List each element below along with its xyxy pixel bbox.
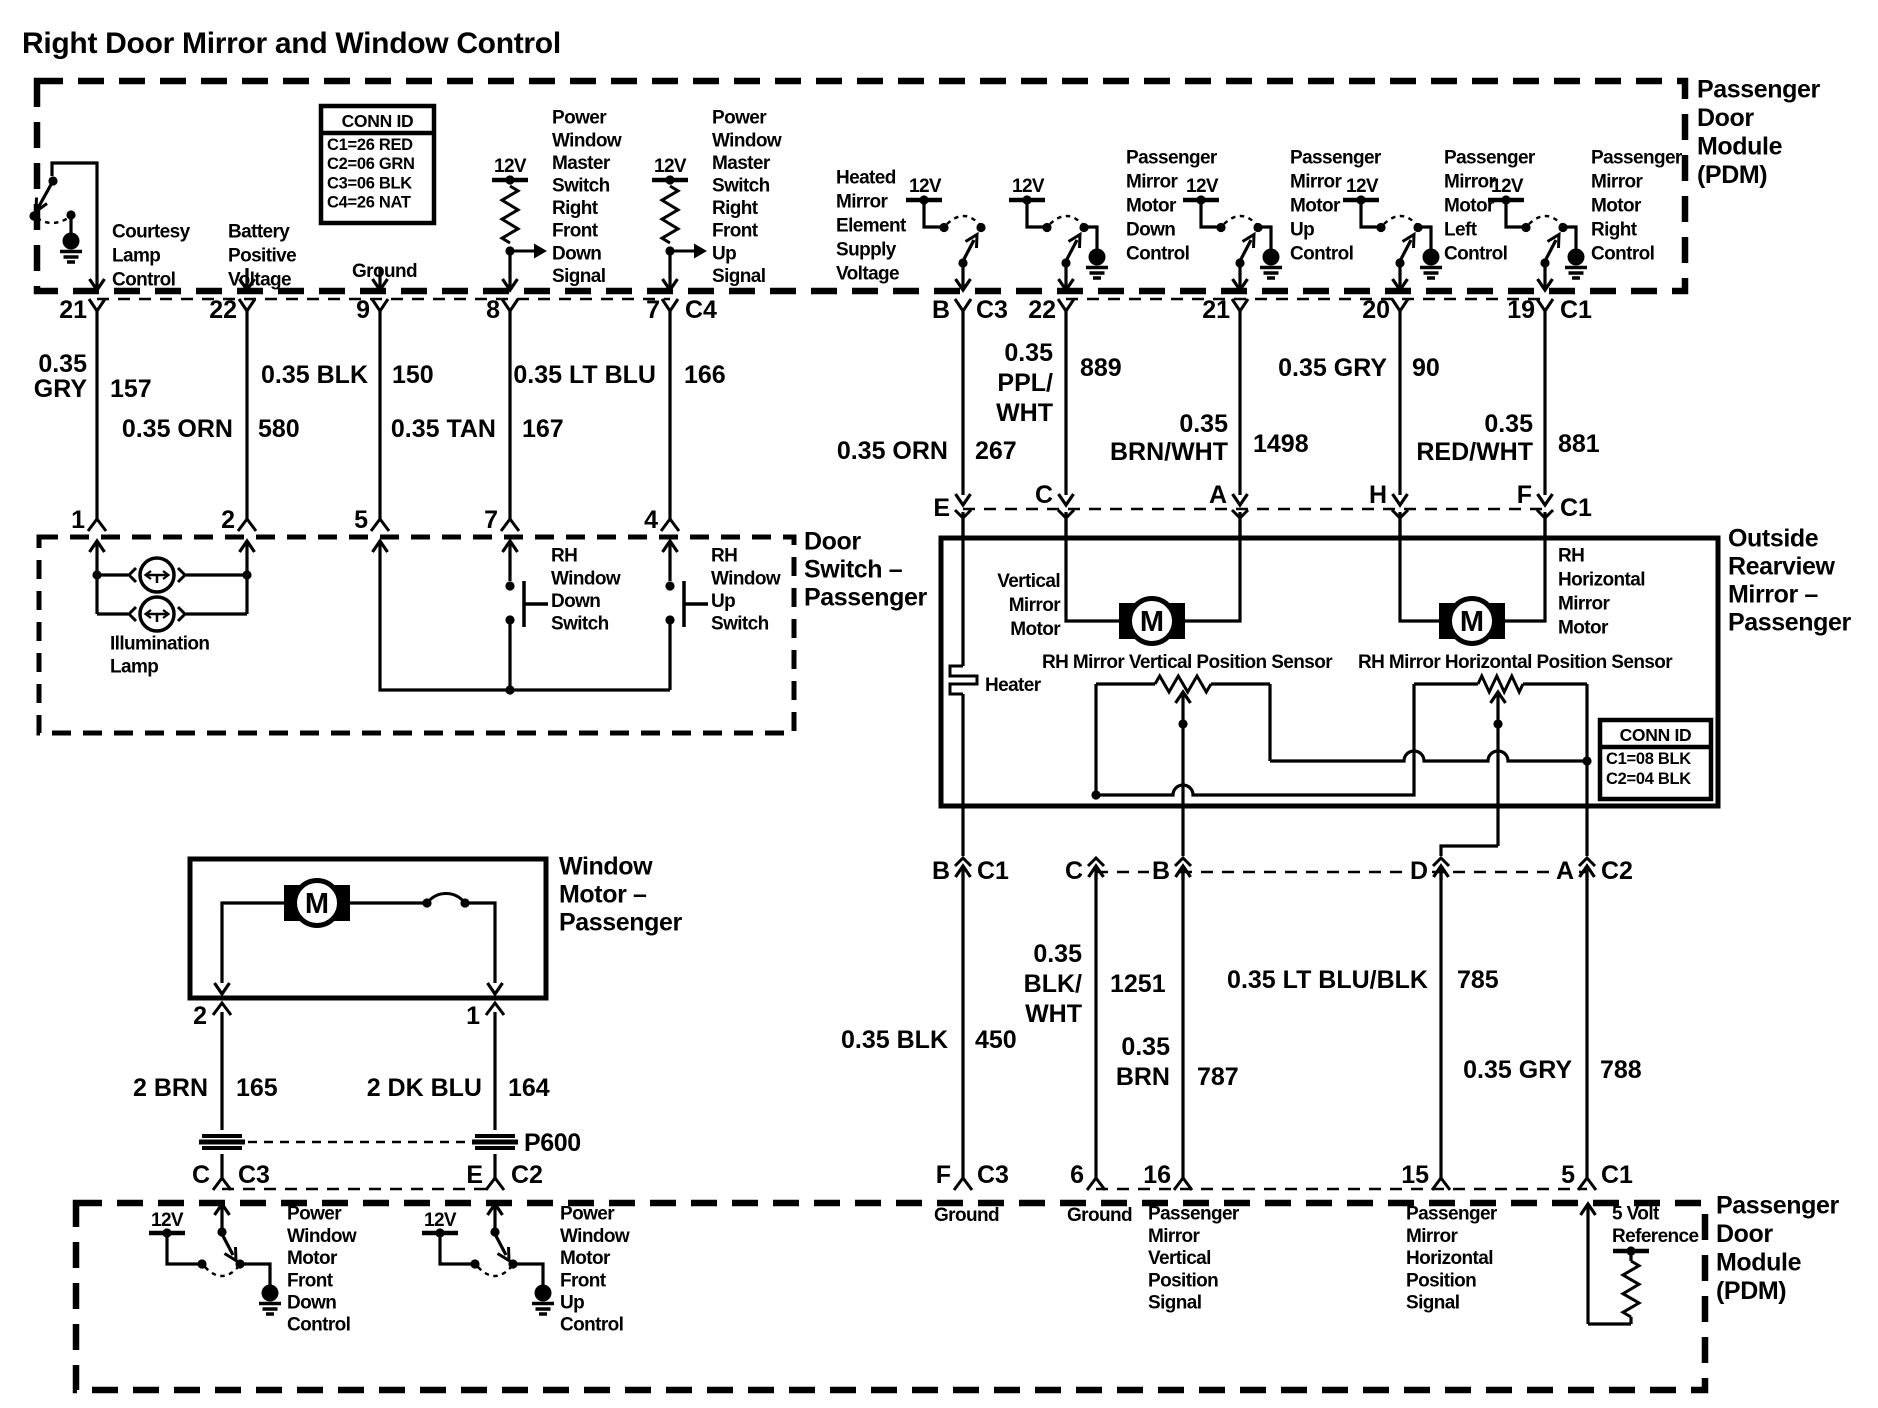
connector C1 dashed line (top) [1066, 298, 1545, 301]
svg-text:GRY: GRY [34, 375, 88, 403]
svg-text:7: 7 [646, 296, 660, 324]
svg-text:Control: Control [1444, 244, 1507, 265]
svg-text:Module: Module [1716, 1249, 1802, 1277]
svg-text:Mirror: Mirror [1591, 172, 1644, 193]
svg-text:787: 787 [1197, 1063, 1239, 1091]
svg-text:RH: RH [1558, 546, 1584, 567]
svg-text:Horizontal: Horizontal [1406, 1248, 1493, 1269]
svg-text:(PDM): (PDM) [1697, 161, 1767, 189]
svg-text:Reference: Reference [1612, 1226, 1699, 1247]
arrow into door switch box at x=670 [663, 541, 678, 552]
svg-text:Mirror: Mirror [1126, 172, 1179, 193]
svg-text:Vertical: Vertical [997, 571, 1060, 592]
svg-text:267: 267 [975, 437, 1017, 465]
svg-text:C1: C1 [1560, 494, 1592, 522]
svg-text:Switch –: Switch – [804, 556, 903, 584]
svg-text:Control: Control [112, 270, 175, 291]
wire 150 (pin9 to pin5) [378, 311, 381, 519]
svg-text:M: M [1140, 606, 1164, 638]
P600 dashed link [248, 1141, 469, 1143]
svg-text:12V: 12V [1012, 176, 1045, 197]
pin 16 fork (bottom PDM) [1174, 1178, 1192, 1190]
illumination lamp 2 [97, 612, 128, 615]
pin A arrow into mirror connector [1233, 494, 1248, 505]
svg-text:Window: Window [551, 568, 621, 589]
pin 21 connector fork (right) [1232, 299, 1248, 311]
svg-text:5: 5 [354, 506, 368, 534]
Window Motor - Passenger box [190, 859, 546, 998]
svg-text:Motor: Motor [1558, 618, 1609, 639]
RH mirror vertical position sensor (potentiometer) [1096, 682, 1155, 685]
svg-text:Lamp: Lamp [112, 246, 160, 267]
svg-text:Up: Up [712, 243, 736, 264]
svg-text:Signal: Signal [712, 266, 765, 287]
svg-text:0.35 LT BLU: 0.35 LT BLU [513, 361, 656, 389]
inline connector P600 right [475, 1134, 515, 1138]
svg-text:Passenger: Passenger [1406, 1204, 1498, 1225]
svg-text:H: H [1369, 481, 1387, 509]
svg-text:15: 15 [1401, 1161, 1429, 1189]
svg-text:Door: Door [804, 528, 861, 556]
svg-text:CONN ID: CONN ID [1620, 725, 1692, 745]
svg-text:RH: RH [551, 546, 577, 567]
svg-text:(PDM): (PDM) [1716, 1277, 1786, 1305]
wire 785 (D to 15) [1439, 874, 1442, 1178]
svg-text:Switch: Switch [712, 176, 770, 197]
svg-text:Window: Window [559, 853, 653, 881]
wire 787 (B to 16) [1181, 874, 1184, 1178]
svg-text:Mirror: Mirror [1558, 594, 1611, 615]
svg-text:788: 788 [1600, 1056, 1642, 1084]
svg-text:B: B [932, 857, 950, 885]
pin 9 connector fork [372, 299, 388, 311]
svg-text:450: 450 [975, 1026, 1017, 1054]
svg-text:WHT: WHT [1025, 1000, 1082, 1028]
RH window up switch [668, 562, 671, 581]
svg-text:5: 5 [1561, 1161, 1575, 1189]
svg-text:P600: P600 [524, 1129, 581, 1157]
svg-text:1: 1 [466, 1002, 480, 1030]
vertical sensor wiper [1176, 692, 1191, 703]
svg-text:Motor –: Motor – [559, 881, 647, 909]
svg-text:6: 6 [1070, 1161, 1084, 1189]
svg-text:C1: C1 [1601, 1161, 1633, 1189]
svg-text:B: B [932, 296, 950, 324]
pin 22 connector fork [239, 299, 255, 311]
node lamp top-left [92, 570, 101, 579]
svg-text:Control: Control [560, 1315, 623, 1336]
svg-text:580: 580 [258, 415, 300, 443]
pin 4 connector fork (door switch) [661, 519, 679, 531]
wire 1251 (C to 6) [1094, 874, 1097, 1178]
svg-text:Ground: Ground [1067, 1205, 1132, 1226]
wire 164 (pin1 to P600) [493, 1012, 496, 1130]
svg-text:22: 22 [1028, 296, 1056, 324]
svg-text:Power: Power [712, 108, 767, 129]
battery positive voltage pin stub [245, 268, 248, 289]
svg-text:Control: Control [287, 1315, 350, 1336]
wire motor to pin 2 [222, 903, 284, 983]
pin 8 connector fork [502, 299, 518, 311]
svg-text:Mirror: Mirror [1406, 1226, 1459, 1247]
svg-text:Motor: Motor [1290, 196, 1341, 217]
sensor output bus with hops [1270, 751, 1587, 761]
pin 7 connector fork (door switch) [501, 519, 519, 531]
RH window down switch [508, 562, 511, 581]
svg-text:B: B [1152, 857, 1170, 885]
svg-text:Power: Power [560, 1204, 615, 1225]
node window switch bus junction [505, 685, 514, 694]
svg-text:Right: Right [1591, 220, 1638, 241]
svg-text:0.35 LT BLU/BLK: 0.35 LT BLU/BLK [1227, 966, 1428, 994]
svg-text:Down: Down [287, 1293, 336, 1314]
wire P600 to pin E [493, 1154, 496, 1178]
pin 2 fork (window motor) [213, 1003, 231, 1015]
svg-text:Motor: Motor [1126, 196, 1177, 217]
mirror lower connector dashed line [1096, 871, 1587, 874]
svg-text:22: 22 [209, 296, 237, 324]
svg-text:Front: Front [552, 221, 599, 242]
svg-text:Switch: Switch [551, 614, 609, 635]
ground pin stub [378, 268, 381, 289]
svg-text:12V: 12V [654, 156, 687, 177]
svg-text:Door: Door [1697, 104, 1754, 132]
svg-text:Window: Window [552, 130, 622, 151]
svg-text:Voltage: Voltage [228, 270, 291, 291]
svg-text:167: 167 [522, 415, 564, 443]
svg-text:Door: Door [1716, 1220, 1773, 1248]
node lamp top-right [242, 570, 251, 579]
svg-text:0.35: 0.35 [1179, 410, 1228, 438]
svg-text:Right: Right [552, 198, 599, 219]
svg-text:2 DK BLU: 2 DK BLU [367, 1074, 482, 1102]
svg-text:5 Volt: 5 Volt [1612, 1204, 1660, 1225]
arrow into door switch box at x=380 [373, 541, 388, 552]
svg-text:Power: Power [287, 1204, 342, 1225]
svg-text:Left: Left [1444, 220, 1478, 241]
svg-text:Module: Module [1697, 133, 1783, 161]
pin 21 connector fork [89, 299, 105, 311]
svg-text:Courtesy: Courtesy [112, 222, 191, 243]
pin B connector fork [955, 299, 971, 311]
svg-text:C2: C2 [511, 1161, 543, 1189]
svg-text:Outside: Outside [1728, 525, 1819, 553]
svg-text:Window: Window [712, 130, 782, 151]
wire 165 (pin2 to P600) [220, 1012, 223, 1130]
horizontal sensor wiper [1491, 692, 1506, 703]
svg-text:Signal: Signal [1148, 1293, 1201, 1314]
svg-text:Signal: Signal [1406, 1293, 1459, 1314]
pin 7 connector fork [662, 299, 678, 311]
svg-text:1498: 1498 [1253, 430, 1309, 458]
svg-text:165: 165 [236, 1074, 278, 1102]
svg-text:BRN: BRN [1116, 1063, 1170, 1091]
svg-text:Right Door Mirror and Window C: Right Door Mirror and Window Control [22, 27, 561, 60]
pin 19 connector fork (right) [1537, 299, 1553, 311]
svg-text:2 BRN: 2 BRN [133, 1074, 208, 1102]
svg-text:BRN/WHT: BRN/WHT [1110, 438, 1228, 466]
wire 166 (pin7 to pin4) [668, 311, 671, 519]
wire 580 (pin22 to pin2) [245, 311, 248, 519]
pin A row3 x1587 symbol [1579, 858, 1595, 866]
svg-text:BLK/: BLK/ [1024, 970, 1082, 998]
svg-text:Motor: Motor [560, 1248, 611, 1269]
svg-text:Position: Position [1406, 1270, 1476, 1291]
svg-text:A: A [1556, 857, 1574, 885]
svg-text:C: C [1065, 857, 1083, 885]
svg-text:A: A [1209, 481, 1227, 509]
svg-text:Switch: Switch [711, 614, 769, 635]
svg-text:E: E [466, 1161, 483, 1189]
svg-text:Ground: Ground [934, 1205, 999, 1226]
pin 6 fork (bottom PDM) [1087, 1178, 1105, 1190]
svg-text:Passenger: Passenger [559, 909, 683, 937]
bottom PDM connector dashed line [1096, 1188, 1587, 1191]
svg-text:Motor: Motor [1010, 619, 1061, 640]
svg-text:Up: Up [711, 591, 735, 612]
circuit breaker (window motor) [350, 901, 427, 904]
CONN ID table (PDM connectors) [321, 106, 434, 223]
svg-text:12V: 12V [494, 156, 527, 177]
svg-text:12V: 12V [424, 1210, 457, 1231]
svg-text:Signal: Signal [552, 266, 605, 287]
wire 1498 (pin21 to pin A) [1238, 311, 1241, 495]
pin F fork (bottom PDM) [954, 1178, 972, 1190]
svg-text:0.35 ORN: 0.35 ORN [837, 437, 948, 465]
svg-text:RH: RH [711, 546, 737, 567]
wire breaker to pin 1 [465, 903, 495, 983]
node sensor common junction [1091, 790, 1100, 799]
svg-text:Mirror: Mirror [836, 192, 889, 213]
svg-text:0.35: 0.35 [1121, 1033, 1170, 1061]
svg-text:0.35 BLK: 0.35 BLK [841, 1026, 948, 1054]
svg-text:19: 19 [1507, 296, 1535, 324]
svg-text:C3=06 BLK: C3=06 BLK [327, 174, 412, 192]
svg-text:D: D [1410, 857, 1428, 885]
pin B row3 x963 symbol [955, 858, 971, 866]
wire 889 (pin22 to pin C) [1064, 311, 1067, 495]
pin 20 connector fork (right) [1392, 299, 1408, 311]
svg-text:157: 157 [110, 375, 152, 403]
svg-text:Window: Window [287, 1226, 357, 1247]
wire 167 (pin8 to pin7) [508, 311, 511, 519]
svg-text:F: F [1517, 481, 1532, 509]
heater element [961, 512, 964, 666]
pin 22 connector fork (right) [1058, 299, 1074, 311]
svg-text:Lamp: Lamp [110, 657, 158, 678]
svg-text:881: 881 [1558, 430, 1600, 458]
svg-text:RH Mirror Horizontal Position: RH Mirror Horizontal Position Sensor [1358, 652, 1673, 673]
sensor common bus with hop [1096, 684, 1414, 795]
svg-text:Master: Master [552, 153, 611, 174]
svg-text:C4: C4 [685, 296, 717, 324]
svg-text:CONN ID: CONN ID [342, 111, 414, 131]
connector C4 dashed line [97, 298, 670, 301]
wire 267 (pin B to pin E) [961, 311, 964, 495]
sensor1 right drop to bus [1268, 684, 1271, 761]
svg-text:Heater: Heater [985, 675, 1042, 696]
arrow into door switch box at x=97 [90, 541, 105, 552]
svg-text:RH Mirror Vertical Position Se: RH Mirror Vertical Position Sensor [1042, 652, 1333, 673]
svg-text:Battery: Battery [228, 222, 290, 243]
svg-text:C1=26 RED: C1=26 RED [327, 136, 413, 154]
RH mirror horizontal position sensor (potentiometer) [1414, 682, 1478, 685]
svg-text:Front: Front [287, 1270, 334, 1291]
svg-text:Passenger: Passenger [1148, 1204, 1240, 1225]
courtesy lamp switch [52, 163, 97, 289]
svg-text:Front: Front [712, 221, 759, 242]
svg-text:Up: Up [560, 1293, 584, 1314]
svg-text:Master: Master [712, 153, 771, 174]
svg-text:Passenger: Passenger [1728, 609, 1852, 637]
svg-text:Down: Down [552, 243, 601, 264]
svg-text:Position: Position [1148, 1270, 1218, 1291]
svg-text:Switch: Switch [552, 176, 610, 197]
pin 15 fork (bottom PDM) [1432, 1178, 1450, 1190]
wire 788 (A to 5) [1585, 874, 1588, 1178]
svg-text:Passenger: Passenger [1716, 1192, 1840, 1220]
vertical mirror motor M1 [1066, 512, 1119, 621]
svg-text:150: 150 [392, 361, 434, 389]
svg-text:Control: Control [1591, 244, 1654, 265]
pin F arrow into mirror connector [1538, 494, 1553, 505]
svg-text:0.35: 0.35 [1484, 410, 1533, 438]
svg-text:WHT: WHT [996, 399, 1053, 427]
mirror connector dashed line (row2) [963, 508, 1545, 511]
wire 90 (pin20 to pin H) [1398, 311, 1401, 495]
svg-text:Motor: Motor [1591, 196, 1642, 217]
Passenger Door Module (PDM) bottom dashed box [76, 1203, 1705, 1390]
svg-text:Mirror –: Mirror – [1728, 581, 1818, 609]
svg-text:Window: Window [711, 568, 781, 589]
svg-text:Supply: Supply [836, 240, 897, 261]
svg-text:0.35 GRY: 0.35 GRY [1278, 354, 1387, 382]
svg-text:0.35 GRY: 0.35 GRY [1463, 1056, 1572, 1084]
pin 5 fork (bottom PDM) [1578, 1178, 1596, 1190]
svg-text:12V: 12V [1491, 176, 1524, 197]
wire 881 (pin19 to pin F) [1543, 311, 1546, 495]
svg-text:E: E [933, 494, 950, 522]
svg-text:Power: Power [552, 108, 607, 129]
svg-text:1251: 1251 [1110, 970, 1166, 998]
svg-text:1: 1 [71, 506, 85, 534]
svg-text:Passenger: Passenger [1126, 148, 1218, 169]
svg-text:7: 7 [484, 506, 498, 534]
svg-text:20: 20 [1362, 296, 1390, 324]
svg-text:Down: Down [1126, 220, 1175, 241]
svg-text:Passenger: Passenger [1290, 148, 1382, 169]
svg-text:2: 2 [221, 506, 235, 534]
svg-text:12V: 12V [909, 176, 942, 197]
svg-text:0.35: 0.35 [1033, 940, 1082, 968]
svg-text:0.35: 0.35 [38, 350, 87, 378]
pin B row3 x1183 symbol [1175, 858, 1191, 866]
svg-text:12V: 12V [1346, 176, 1379, 197]
svg-text:Down: Down [551, 591, 600, 612]
svg-text:164: 164 [508, 1074, 550, 1102]
arrow into door switch box at x=510 [503, 541, 518, 552]
connector row C/E dashed line [222, 1188, 495, 1191]
CONN ID table (mirror) [1600, 720, 1711, 799]
pin D row3 x1441 label [1407, 857, 1429, 882]
svg-text:C3: C3 [238, 1161, 270, 1189]
svg-text:Up: Up [1290, 220, 1314, 241]
svg-text:889: 889 [1080, 354, 1122, 382]
pin 5 connector fork (door switch) [371, 519, 389, 531]
svg-text:Motor: Motor [287, 1248, 338, 1269]
svg-text:C4=26 NAT: C4=26 NAT [327, 194, 411, 212]
5 volt reference circuit [1581, 1204, 1596, 1215]
pin D row3 x1441 symbol [1433, 858, 1449, 866]
svg-text:C1=08 BLK: C1=08 BLK [1606, 750, 1691, 768]
pin 1 connector fork (door switch) [88, 519, 106, 531]
svg-text:Heated: Heated [836, 168, 896, 189]
svg-text:0.35: 0.35 [1004, 339, 1053, 367]
RH horizontal mirror motor M2 [1400, 512, 1439, 621]
svg-text:166: 166 [684, 361, 726, 389]
pin C row3 x1096 symbol [1088, 858, 1104, 866]
svg-text:Mirror: Mirror [1444, 172, 1497, 193]
wire pin5 down and bus to switches [380, 562, 670, 690]
window motor M [284, 885, 350, 921]
wire pin2 to lamps [245, 562, 248, 614]
svg-text:Right: Right [712, 198, 759, 219]
pin H arrow into mirror connector [1393, 494, 1408, 505]
svg-text:Passenger: Passenger [804, 584, 928, 612]
Outside Rearview Mirror - Passenger box [941, 538, 1718, 806]
Door Switch - Passenger dashed box [39, 537, 794, 733]
svg-text:Ground: Ground [352, 261, 417, 282]
svg-text:Passenger: Passenger [1697, 76, 1821, 104]
svg-text:2: 2 [193, 1002, 207, 1030]
svg-text:Motor: Motor [1444, 196, 1495, 217]
svg-text:21: 21 [59, 296, 87, 324]
pin C arrow into mirror connector [1059, 494, 1074, 505]
svg-text:M: M [305, 888, 329, 920]
illumination lamp 1 [97, 573, 128, 576]
svg-text:RED/WHT: RED/WHT [1416, 438, 1533, 466]
svg-text:16: 16 [1143, 1161, 1171, 1189]
svg-text:90: 90 [1412, 354, 1440, 382]
svg-text:4: 4 [644, 506, 658, 534]
svg-text:12V: 12V [1186, 176, 1219, 197]
svg-text:C3: C3 [976, 296, 1008, 324]
svg-text:C1: C1 [1560, 296, 1592, 324]
svg-text:Mirror: Mirror [1009, 595, 1062, 616]
svg-text:Control: Control [1126, 244, 1189, 265]
svg-text:C2=04 BLK: C2=04 BLK [1606, 770, 1691, 788]
svg-text:Mirror: Mirror [1148, 1226, 1201, 1247]
svg-text:9: 9 [356, 296, 370, 324]
pin 1 fork (window motor) [486, 1003, 504, 1015]
svg-text:Passenger: Passenger [1591, 148, 1683, 169]
svg-text:C1: C1 [977, 857, 1009, 885]
svg-text:Control: Control [1290, 244, 1353, 265]
node bus to pin A [1582, 756, 1591, 765]
svg-text:PPL/: PPL/ [997, 369, 1053, 397]
svg-text:C: C [1035, 481, 1053, 509]
svg-text:Front: Front [560, 1270, 607, 1291]
svg-text:Voltage: Voltage [836, 264, 899, 285]
svg-text:Vertical: Vertical [1148, 1248, 1211, 1269]
pin C fork (bottom) [213, 1178, 231, 1190]
svg-text:C2=06 GRN: C2=06 GRN [327, 155, 415, 173]
wire 157 (pin21 to pin1) [95, 311, 98, 519]
pin E arrow into mirror connector [956, 494, 971, 505]
inline connector P600 left [202, 1134, 242, 1138]
svg-text:785: 785 [1457, 966, 1499, 994]
wire P600 to pin C [220, 1154, 223, 1178]
